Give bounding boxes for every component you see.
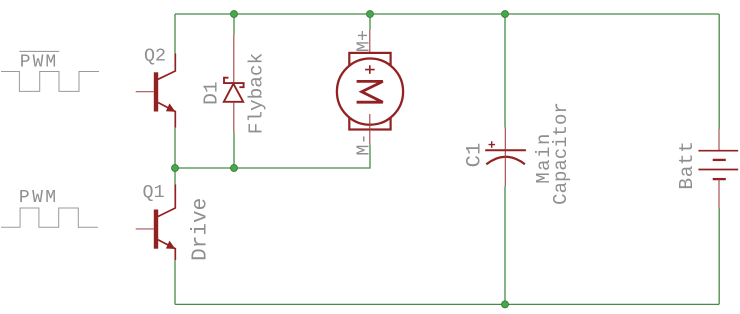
motor body rect xyxy=(349,53,390,130)
svg-text:C1: C1 xyxy=(463,143,486,168)
junction dot motor top xyxy=(367,11,374,18)
battery bottom pin xyxy=(718,179,720,208)
junction dot D1 bottom xyxy=(231,165,238,172)
C1 bottom pin xyxy=(504,151,506,187)
svg-text:Batt: Batt xyxy=(676,140,698,189)
motor body circle xyxy=(337,59,403,125)
Q1 collector xyxy=(158,185,175,217)
transistor Q1 xyxy=(136,185,176,261)
capacitor C1 xyxy=(485,128,526,187)
wire mid horizontal motor return xyxy=(175,145,370,168)
Q2 base bar xyxy=(154,72,158,111)
Q2 base wire xyxy=(136,91,154,93)
D1 bottom pin xyxy=(233,102,235,133)
D1 schottky cathode bar xyxy=(224,78,244,88)
battery short plate 2 xyxy=(713,178,726,180)
wire right vertical battery net xyxy=(718,14,720,304)
motor M1 xyxy=(337,30,403,145)
battery long plate 1 xyxy=(698,150,738,152)
D1 top pin xyxy=(233,35,235,82)
wire top rail xyxy=(175,13,719,15)
svg-text:PWM: PWM xyxy=(20,53,58,73)
svg-text:Q1: Q1 xyxy=(143,182,165,203)
Q1 base bar xyxy=(154,210,158,249)
motor top pin xyxy=(369,30,371,53)
Q1 base wire xyxy=(136,228,154,230)
transistor Q2 xyxy=(136,54,176,128)
Q2 emitter arrow xyxy=(166,103,176,111)
motor plus xyxy=(365,65,375,74)
C1 top plate xyxy=(485,149,526,151)
Q2 emitter xyxy=(158,103,175,128)
battery Batt xyxy=(698,129,738,208)
Q2 collector xyxy=(158,54,175,80)
wire C1 branch xyxy=(504,14,506,304)
PWM waveform top xyxy=(1,72,99,92)
svg-text:Drive: Drive xyxy=(190,198,213,261)
Q1 emitter xyxy=(158,240,175,260)
motor M glyph xyxy=(357,81,383,102)
PWM waveform bottom xyxy=(1,208,98,227)
svg-text:Q2: Q2 xyxy=(144,45,166,66)
svg-text:PWM: PWM xyxy=(19,188,59,208)
C1 bottom plate arc xyxy=(486,157,525,165)
junction dot C1 bottom xyxy=(502,301,509,308)
junction dot C1 top xyxy=(502,11,509,18)
PWM overline top xyxy=(19,50,59,52)
wire left vertical segments xyxy=(174,14,176,304)
svg-text:Flyback: Flyback xyxy=(246,53,268,134)
junction dot D1 top xyxy=(231,11,238,18)
svg-text:Capacitor: Capacitor xyxy=(550,102,572,205)
C1 top pin xyxy=(504,128,506,151)
Q1 emitter arrow xyxy=(166,241,176,249)
junction node left mid xyxy=(172,165,179,172)
diode D1 flyback schottky xyxy=(224,35,244,133)
svg-text:D1: D1 xyxy=(201,81,223,104)
wire bottom rail xyxy=(175,303,719,305)
battery top pin xyxy=(718,129,720,151)
battery short plate 1 xyxy=(713,159,726,161)
svg-text:M+: M+ xyxy=(353,30,374,52)
svg-text:M-: M- xyxy=(353,133,374,155)
C1 plus xyxy=(489,141,496,148)
wire D1 branch xyxy=(233,14,235,168)
wire motor top xyxy=(369,14,371,30)
motor bottom pin xyxy=(369,114,371,145)
battery long plate 2 xyxy=(698,169,738,171)
D1 triangle xyxy=(224,84,243,102)
